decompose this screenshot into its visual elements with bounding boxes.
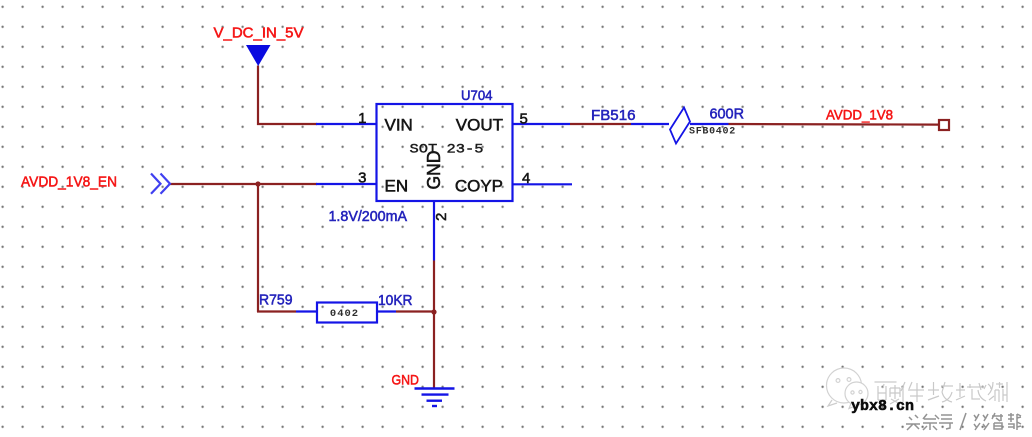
- svg-text:GND: GND: [392, 372, 420, 388]
- svg-text:5: 5: [520, 111, 528, 128]
- svg-text:R759: R759: [259, 292, 293, 309]
- svg-text:U704: U704: [461, 87, 493, 103]
- svg-text:4: 4: [522, 170, 530, 187]
- svg-text:SOT 23-5: SOT 23-5: [410, 142, 484, 157]
- svg-text:10KR: 10KR: [378, 292, 413, 309]
- svg-text:AVDD_1V8_EN: AVDD_1V8_EN: [21, 174, 117, 191]
- svg-text:V_DC_IN_5V: V_DC_IN_5V: [214, 25, 304, 42]
- svg-text:VIN: VIN: [385, 116, 413, 135]
- svg-text:AVDD_1V8: AVDD_1V8: [826, 107, 893, 123]
- svg-text:COYP: COYP: [455, 177, 503, 196]
- svg-text:2: 2: [433, 213, 450, 221]
- svg-text:600R: 600R: [710, 106, 745, 123]
- svg-text:VOUT: VOUT: [456, 116, 503, 135]
- svg-text:FB516: FB516: [591, 107, 636, 124]
- svg-text:0402: 0402: [330, 308, 359, 320]
- svg-text:EN: EN: [385, 177, 409, 196]
- svg-text:SFB0402: SFB0402: [689, 127, 736, 138]
- svg-text:ybx8.cn: ybx8.cn: [851, 398, 914, 415]
- svg-text:3: 3: [358, 170, 366, 187]
- svg-text:1.8V/200mA: 1.8V/200mA: [329, 209, 408, 225]
- svg-text:1: 1: [358, 110, 366, 127]
